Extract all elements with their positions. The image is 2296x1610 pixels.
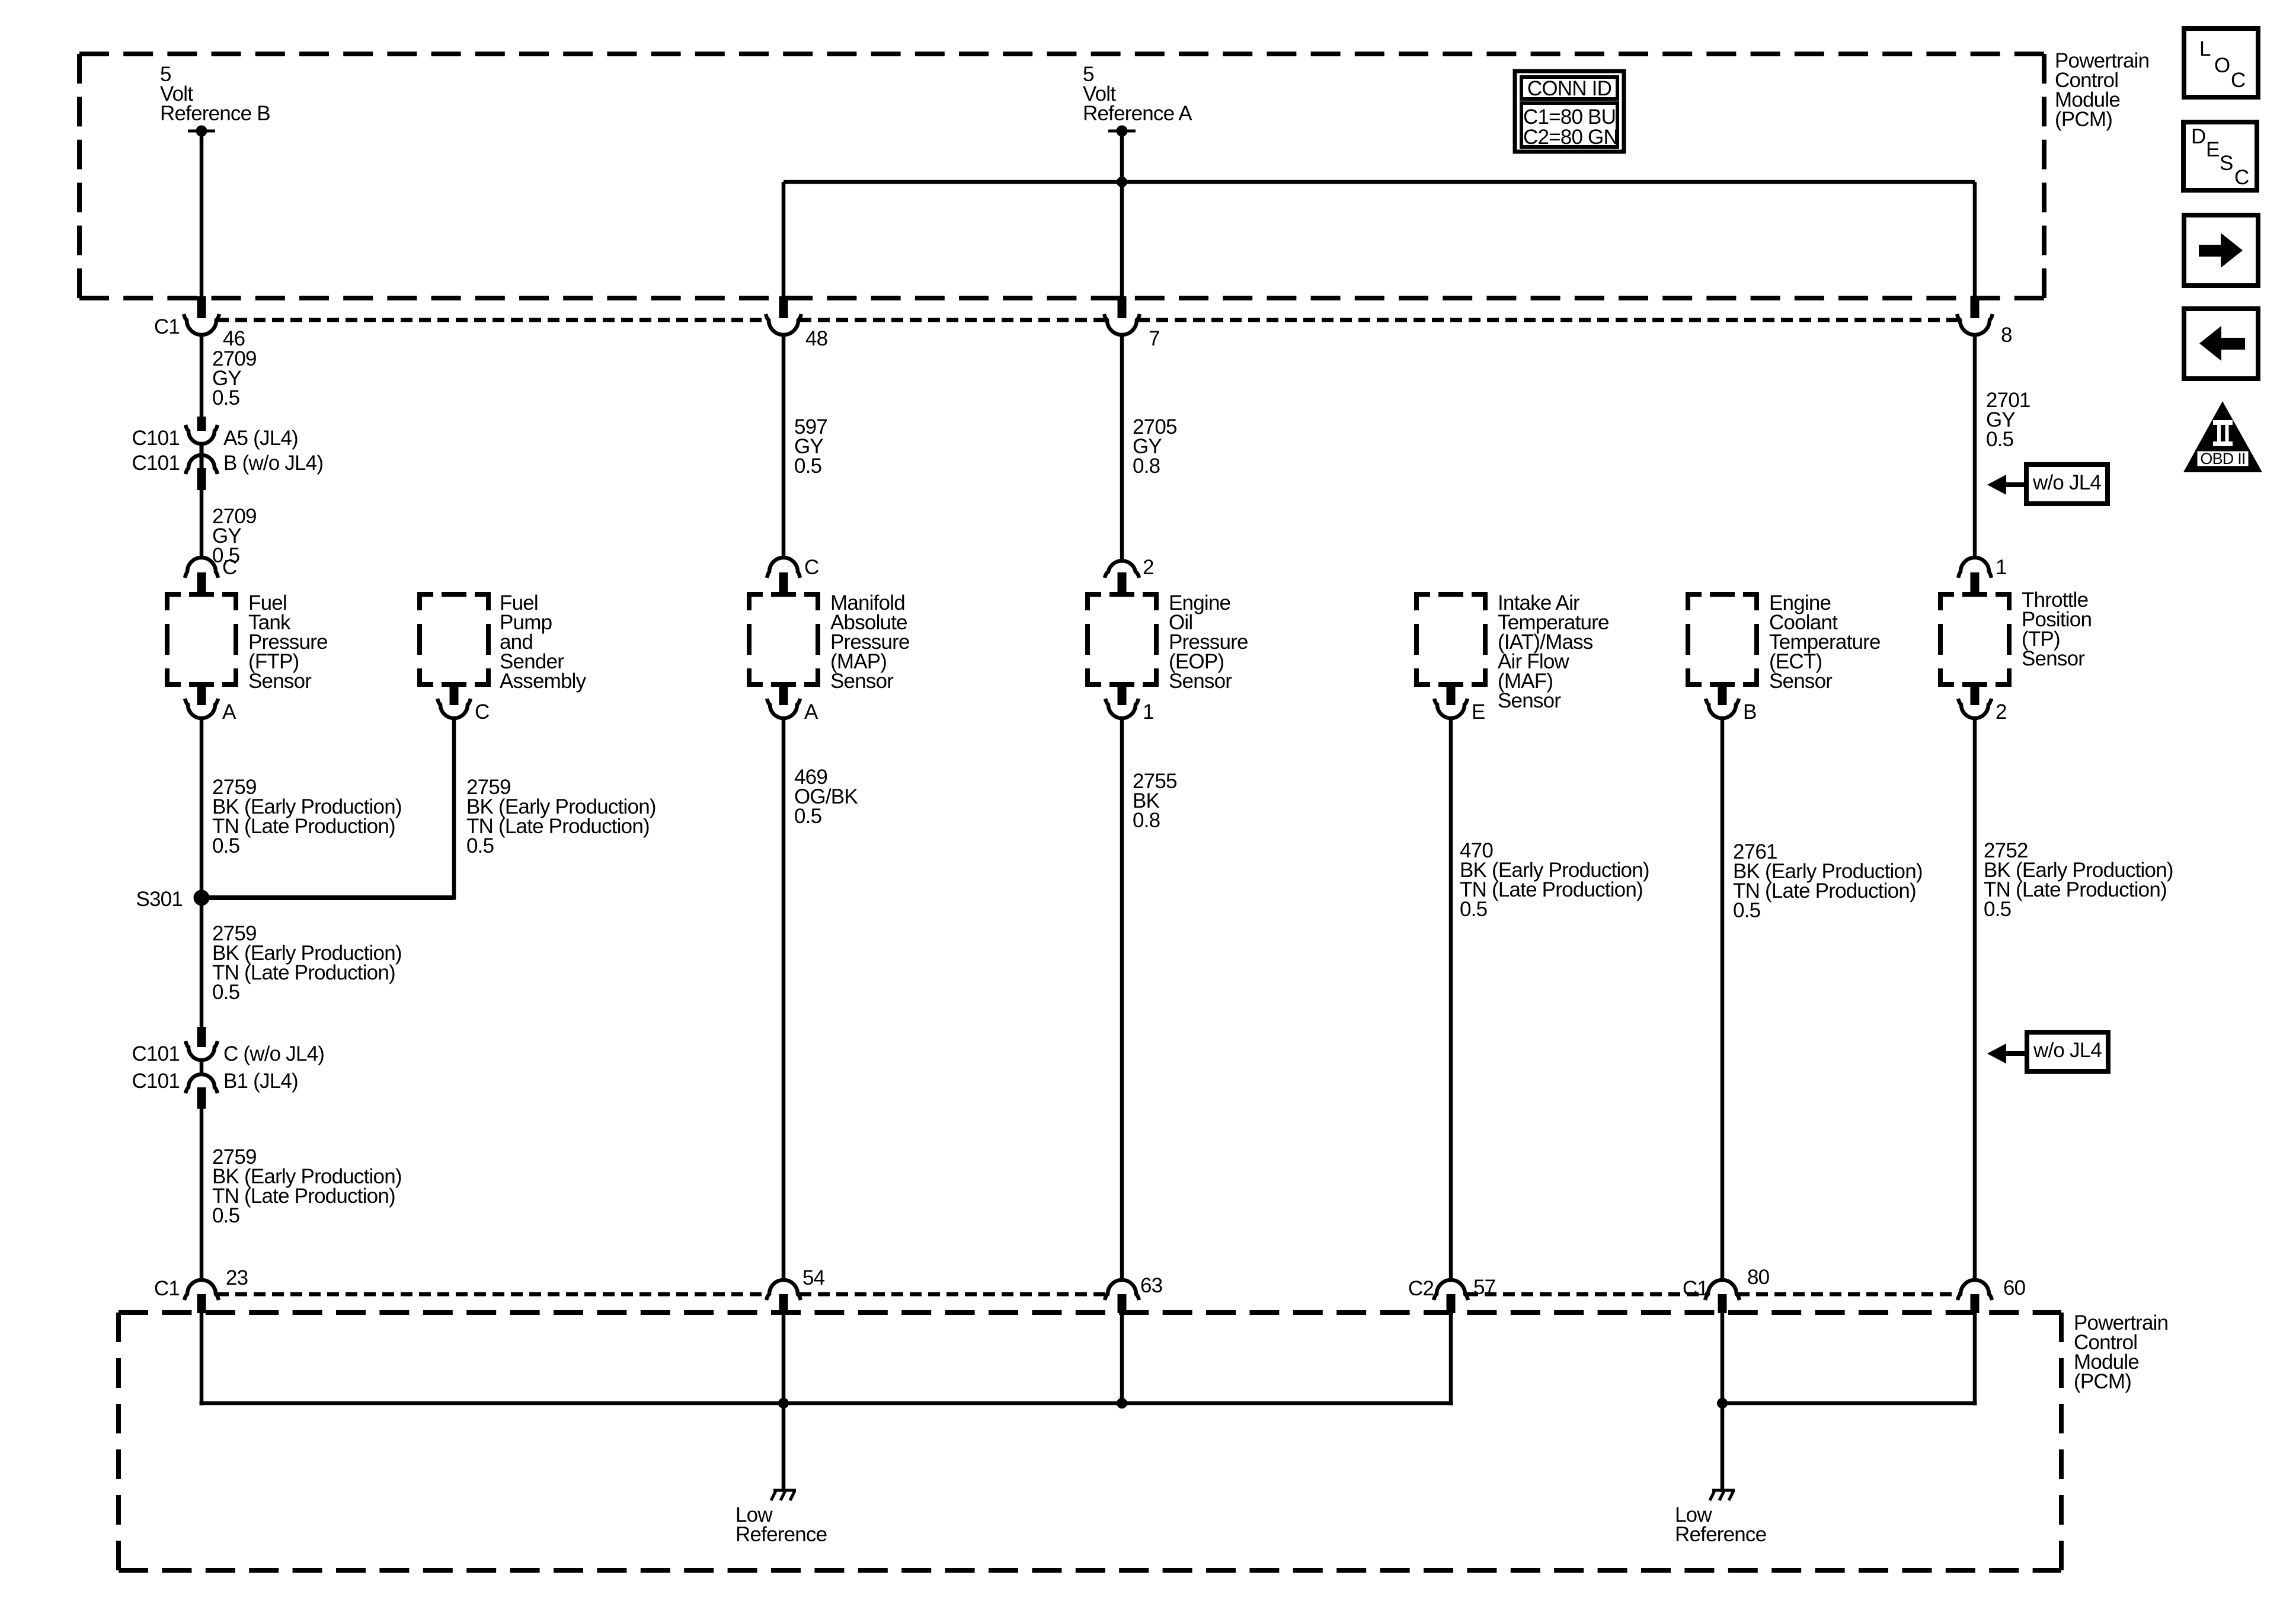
svg-text:C: C (475, 700, 489, 724)
svg-text:C (w/o JL4): C (w/o JL4) (223, 1042, 324, 1065)
svg-text:E: E (1472, 700, 1485, 724)
svg-text:w/o JL4: w/o JL4 (2032, 471, 2101, 494)
svg-text:Sensor: Sensor (1169, 670, 1232, 693)
svg-text:TN (Late Production): TN (Late Production) (1460, 878, 1643, 901)
svg-text:OBD II: OBD II (2200, 450, 2245, 468)
svg-text:C1: C1 (154, 1277, 180, 1300)
svg-text:2: 2 (1143, 556, 1154, 579)
svg-text:Reference: Reference (736, 1523, 827, 1546)
svg-text:Sensor: Sensor (248, 670, 312, 693)
svg-text:0.5: 0.5 (1986, 428, 2013, 451)
svg-text:57: 57 (1473, 1276, 1495, 1299)
svg-text:54: 54 (802, 1266, 825, 1289)
svg-text:C1: C1 (1683, 1277, 1708, 1300)
svg-text:L: L (2199, 37, 2211, 60)
svg-text:80: 80 (1747, 1266, 1770, 1289)
svg-text:0.5: 0.5 (1984, 898, 2011, 921)
svg-text:0.5: 0.5 (212, 834, 239, 857)
svg-text:63: 63 (1140, 1274, 1162, 1297)
svg-text:Reference: Reference (1675, 1523, 1766, 1546)
svg-text:1: 1 (1996, 556, 2007, 579)
svg-text:C101: C101 (132, 427, 180, 450)
svg-text:Sensor: Sensor (2022, 647, 2085, 670)
svg-text:0.5: 0.5 (1460, 898, 1487, 921)
svg-text:C: C (804, 556, 818, 579)
svg-text:O: O (2214, 54, 2230, 77)
svg-text:CONN ID: CONN ID (1527, 77, 1611, 100)
svg-text:B: B (1743, 700, 1757, 724)
svg-text:0.5: 0.5 (794, 805, 821, 828)
svg-text:0.5: 0.5 (794, 454, 821, 478)
svg-text:A: A (222, 700, 236, 724)
svg-text:S: S (2220, 152, 2233, 175)
svg-text:Reference A: Reference A (1083, 102, 1192, 125)
svg-text:TN (Late Production): TN (Late Production) (212, 961, 395, 984)
svg-text:C: C (2231, 69, 2245, 92)
svg-text:B1 (JL4): B1 (JL4) (223, 1070, 298, 1093)
svg-text:w/o JL4: w/o JL4 (2033, 1039, 2102, 1062)
svg-text:C: C (2234, 166, 2249, 189)
svg-text:C101: C101 (132, 1042, 180, 1065)
svg-text:Sensor: Sensor (830, 670, 894, 693)
svg-text:0.5: 0.5 (1733, 899, 1760, 922)
svg-text:60: 60 (2003, 1276, 2026, 1299)
svg-text:C: C (222, 556, 236, 579)
svg-text:S301: S301 (136, 888, 183, 911)
svg-text:2: 2 (1996, 700, 2007, 724)
svg-text:0.5: 0.5 (212, 1204, 239, 1227)
svg-text:TN (Late Production): TN (Late Production) (212, 815, 395, 838)
svg-text:Reference B: Reference B (160, 102, 270, 125)
svg-text:C1: C1 (154, 315, 180, 338)
svg-text:0.5: 0.5 (212, 981, 239, 1004)
svg-text:Sensor: Sensor (1769, 670, 1833, 693)
svg-text:B (w/o JL4): B (w/o JL4) (223, 452, 323, 475)
svg-text:23: 23 (226, 1266, 248, 1289)
svg-text:A5 (JL4): A5 (JL4) (223, 427, 298, 450)
svg-text:C101: C101 (132, 452, 180, 475)
svg-text:TN (Late Production): TN (Late Production) (212, 1185, 395, 1208)
svg-text:C2=80 GN: C2=80 GN (1523, 126, 1618, 149)
svg-text:0.5: 0.5 (466, 834, 494, 857)
svg-text:D: D (2191, 125, 2205, 148)
svg-text:0.8: 0.8 (1133, 454, 1160, 478)
svg-text:E: E (2206, 138, 2220, 161)
svg-text:8: 8 (2001, 324, 2012, 347)
svg-text:48: 48 (805, 327, 827, 350)
svg-text:1: 1 (1143, 700, 1154, 724)
svg-text:Sensor: Sensor (1498, 689, 1561, 712)
svg-text:(PCM): (PCM) (2055, 108, 2112, 131)
svg-text:TN (Late Production): TN (Late Production) (466, 815, 650, 838)
svg-text:(PCM): (PCM) (2074, 1370, 2131, 1393)
svg-text:TN (Late Production): TN (Late Production) (1733, 879, 1916, 902)
svg-text:0.5: 0.5 (212, 386, 239, 409)
svg-text:Assembly: Assembly (500, 670, 587, 693)
svg-text:C2: C2 (1408, 1277, 1434, 1300)
svg-text:7: 7 (1149, 327, 1160, 350)
svg-text:TN (Late Production): TN (Late Production) (1984, 878, 2167, 901)
svg-text:A: A (804, 700, 818, 724)
svg-text:C101: C101 (132, 1070, 180, 1093)
svg-text:0.8: 0.8 (1133, 809, 1160, 832)
